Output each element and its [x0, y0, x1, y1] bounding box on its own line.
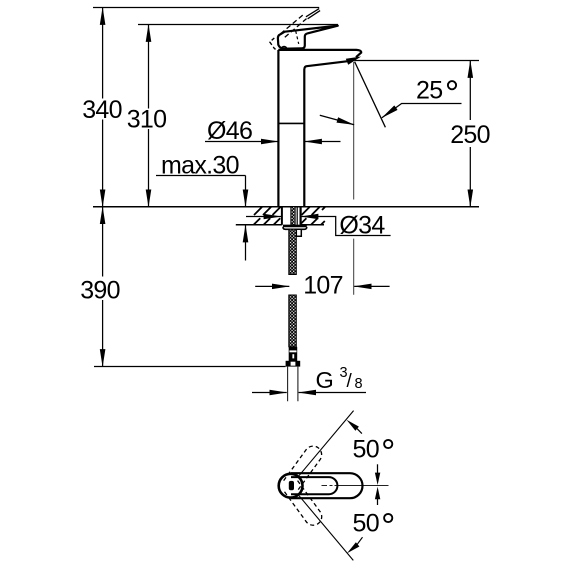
hose nut — [286, 361, 301, 367]
lever front lip arc — [281, 47, 287, 49]
top view: phantom capsule down (dashed, -50°) — [284, 481, 325, 529]
shank left wall — [281, 207, 283, 225]
top view: pivot pill — [289, 481, 294, 490]
svg-text:25: 25 — [416, 77, 442, 105]
counter bottom line left — [236, 224, 282, 226]
counter bottom line right — [301, 224, 324, 226]
top view: faucet circle — [279, 474, 303, 498]
svg-text:310: 310 — [127, 106, 167, 134]
phantom lever base (dashed) — [270, 38, 279, 50]
25° curved arrow — [320, 115, 354, 125]
shank right wall — [300, 207, 302, 225]
threaded rod in shank (braided) — [291, 207, 296, 225]
flexible hose upper (braided) — [289, 229, 297, 274]
svg-text:390: 390 — [80, 277, 120, 305]
counter hatching right — [301, 207, 325, 225]
mounting flange below counter — [283, 225, 307, 228]
spout tip arrow (25° angle) — [346, 57, 361, 65]
top view: inner capsule (lever) — [291, 477, 337, 494]
dimension 107 — [255, 285, 289, 287]
svg-text:G: G — [316, 367, 334, 393]
phantom lever arm (dashed) — [281, 15, 307, 38]
flexible hose lower (braided) — [289, 295, 297, 347]
max.30 lower arrow — [245, 225, 247, 261]
spout underside — [304, 61, 352, 70]
shank inner line — [296, 207, 298, 225]
extension line top (340 upper, to raised lever tip) — [93, 7, 319, 9]
extension line (250 top, spout tip) — [355, 60, 480, 62]
25° vertical reference line — [353, 62, 355, 295]
svg-text:8: 8 — [355, 376, 363, 392]
svg-text:50: 50 — [353, 436, 379, 464]
faucet body left edge — [277, 50, 279, 207]
counter top line — [93, 206, 479, 208]
faucet body joint line — [278, 122, 304, 124]
faucet top and spout tip — [278, 50, 361, 57]
50° upper arrowhead — [347, 420, 359, 431]
25° leader and arrow — [382, 104, 462, 118]
svg-text:250: 250 — [450, 121, 490, 149]
50° vertical arrows at centerline — [377, 464, 379, 474]
svg-text:/: / — [347, 371, 353, 392]
Ø34 arrows — [246, 216, 281, 218]
top view: 50° upper angle line — [299, 411, 354, 476]
top view: centerline — [322, 485, 389, 487]
counter hatching left — [254, 207, 281, 225]
25° slant line — [355, 62, 386, 128]
svg-text:50: 50 — [353, 510, 379, 538]
dimension 340 — [102, 8, 104, 207]
faucet body right edge — [303, 70, 305, 207]
G 3/8 arrows — [252, 392, 287, 394]
dimension 310 — [148, 25, 150, 207]
second hose stub — [296, 229, 301, 236]
svg-text:107: 107 — [303, 272, 343, 300]
svg-text:Ø46: Ø46 — [207, 117, 252, 145]
lever handle (rest position) — [278, 26, 338, 49]
top view: phantom capsule up (dashed, +50°) — [284, 443, 325, 491]
extension line (390 bottom, hose end) — [94, 366, 286, 368]
dimension 250 — [469, 61, 471, 207]
raised lever tip strokes — [306, 9, 320, 19]
svg-text:Ø34: Ø34 — [339, 212, 385, 240]
svg-text:340: 340 — [82, 96, 122, 124]
extension line (310 upper, to lever tip) — [138, 24, 338, 26]
top view: 50° lower angle line — [299, 496, 353, 561]
lever hidden pivot line (dashed) — [296, 31, 299, 44]
50° lower arrowhead — [347, 542, 359, 553]
hose ferrule — [289, 347, 298, 361]
top view: outer capsule (lever base outline) — [291, 473, 363, 498]
connection tube G3/8 — [288, 367, 298, 402]
dimension 390 — [102, 207, 104, 367]
